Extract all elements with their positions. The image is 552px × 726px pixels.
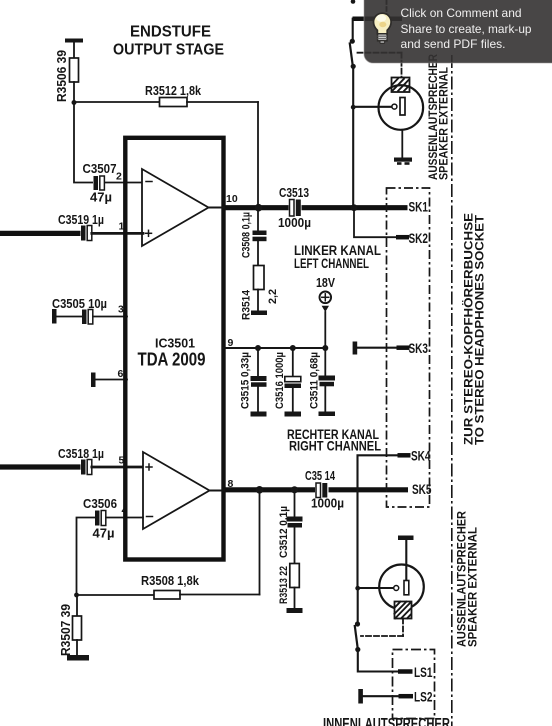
- capacitor C3515 0,33u: [240, 348, 267, 412]
- svg-text:C3511 0,68µ: C3511 0,68µ: [309, 352, 321, 409]
- wire terminal to speaker 2: [405, 540, 407, 581]
- wire R3508 up to output node: [259, 490, 261, 595]
- svg-text:10: 10: [226, 193, 238, 205]
- node junctions on pin 9 rail: [255, 345, 261, 351]
- connector box LS1-LS2: [393, 650, 435, 719]
- svg-text:SPEAKER EXTERNAL: SPEAKER EXTERNAL: [468, 527, 480, 647]
- svg-text:C3508 0,1µ: C3508 0,1µ: [241, 212, 253, 258]
- capacitor C3512 0,1u: [278, 490, 303, 564]
- wire thick to top connector: [353, 16, 403, 21]
- label ZUR STEREO-KOPFHOERERBUCHSE / TO STEREO HEADPHONES SOCKET: [461, 213, 487, 445]
- svg-text:R3506 39: R3506 39: [55, 50, 69, 102]
- svg-text:LS1: LS1: [414, 665, 433, 680]
- svg-text:C3513: C3513: [279, 186, 309, 200]
- svg-text:9: 9: [228, 337, 234, 349]
- node junction speaker 2: [355, 586, 360, 591]
- power terminal bar above R3506: [65, 39, 83, 59]
- capacitor C3516 1000u: [274, 348, 301, 412]
- wire C3505 to pin 3: [93, 316, 127, 318]
- svg-text:SK1: SK1: [409, 200, 429, 215]
- node at top edge: [351, 0, 356, 4]
- svg-text:6: 6: [118, 368, 124, 380]
- capacitor C3505 10u: [52, 297, 107, 324]
- speaker jack 2 hatched plug: [394, 601, 412, 619]
- capacitor C3514 1000u: [305, 469, 344, 511]
- wire C3506 to pin 4: [106, 517, 143, 519]
- terminal bar SK3: [353, 342, 358, 355]
- wire C3519 to pin 1: [92, 232, 143, 235]
- svg-text:OUTPUT STAGE: OUTPUT STAGE: [113, 42, 224, 59]
- ground bar R3513: [287, 608, 303, 613]
- IC U1 box IC3501 TDA2009: [125, 138, 223, 560]
- svg-text:C3515 0,33µ: C3515 0,33µ: [240, 352, 252, 409]
- node junction speaker 1: [351, 105, 356, 110]
- wire to speaker 1: [353, 106, 392, 108]
- connector box SK1-SK5: [387, 188, 430, 507]
- svg-text:C35 14: C35 14: [305, 469, 335, 483]
- svg-text:IC3501: IC3501: [155, 336, 195, 351]
- terminal bar speaker 2 top: [398, 536, 414, 541]
- supply node 18V: [316, 276, 336, 348]
- speaker jack 1 circle: [379, 85, 424, 130]
- capacitor C3511 0,68u: [309, 348, 336, 412]
- svg-text:18V: 18V: [316, 276, 336, 290]
- wire to speaker 2: [358, 587, 394, 589]
- node junction R3506/R3512/C3507: [72, 100, 77, 105]
- node junction to SK2 branch: [351, 204, 358, 211]
- svg-text:SK4: SK4: [411, 449, 431, 464]
- wire LS2: [363, 695, 399, 697]
- svg-text:R3513 22: R3513 22: [278, 566, 290, 604]
- capacitor C3513 1000u: [278, 186, 311, 230]
- svg-text:SK3: SK3: [409, 341, 429, 356]
- svg-text:Click on Comment and: Click on Comment and: [401, 6, 522, 20]
- svg-text:INNENLAUTSPRECHER: INNENLAUTSPRECHER: [323, 716, 450, 726]
- svg-text:C3505 10µ: C3505 10µ: [52, 297, 107, 311]
- node junction output/R3508: [256, 486, 264, 494]
- wire LS1 stub: [398, 669, 413, 674]
- ground bar C3511: [319, 412, 336, 417]
- svg-text:LS2: LS2: [414, 690, 433, 705]
- wire switch to LS1: [358, 651, 398, 672]
- node junction R3507/R3508: [74, 593, 79, 598]
- wire C3518 to pin 5: [92, 466, 143, 469]
- wire left channel output (thick): [225, 205, 408, 210]
- wire right channel output (thick): [225, 487, 408, 492]
- svg-text:1000µ: 1000µ: [278, 216, 311, 230]
- resistor R3513 22: [278, 564, 299, 609]
- svg-text:R3514: R3514: [241, 289, 253, 320]
- ground bar C3515: [251, 412, 267, 417]
- speaker jack 2 slot: [404, 581, 409, 595]
- svg-text:SK5: SK5: [412, 482, 432, 497]
- svg-text:47µ: 47µ: [93, 527, 115, 541]
- wire pin 6: [96, 379, 128, 381]
- label AUSSENLAUTSPRECHER / SPEAKER EXTERNAL bottom: [457, 510, 480, 647]
- tooltip overlay: [364, 0, 552, 63]
- speaker jack 1 hatched plug: [392, 78, 410, 93]
- bulb icon: [374, 13, 392, 43]
- svg-text:SPEAKER EXTERNAL: SPEAKER EXTERNAL: [438, 67, 450, 180]
- ground bar C3516: [285, 412, 302, 417]
- resistor R3508 1,8k feedback lower: [77, 574, 260, 599]
- svg-text:C3507: C3507: [83, 162, 117, 176]
- svg-text:R3512 1,8k: R3512 1,8k: [145, 84, 201, 98]
- svg-text:2,2: 2,2: [267, 289, 279, 304]
- speaker jack 2 circle: [379, 565, 424, 610]
- pin 8 output wire: [210, 489, 226, 491]
- boundary line headphone socket (dash-dot): [451, 55, 453, 726]
- resistor R3507 39: [59, 595, 82, 656]
- top hidden connector dashed edge: [386, 0, 388, 18]
- terminal bar LS2: [358, 689, 363, 704]
- op-amp U1b (lower half TDA2009): [143, 452, 210, 529]
- wire switch to speaker node: [352, 68, 354, 208]
- ground bar R3514: [251, 311, 267, 316]
- switch S2 speaker bottom: [355, 588, 361, 652]
- capacitor C3519 1u: [58, 213, 104, 242]
- resistor R3506 39: [55, 50, 79, 102]
- svg-text:47µ: 47µ: [90, 191, 112, 205]
- terminal bar C3505 left: [52, 309, 57, 324]
- wire LS2 stub: [399, 694, 414, 699]
- wire SK3: [357, 347, 409, 349]
- svg-text:Share to create, mark-up: Share to create, mark-up: [401, 22, 532, 36]
- svg-text:R3508 1,8k: R3508 1,8k: [141, 574, 199, 588]
- op-amp U1a (upper half TDA2009): [142, 169, 209, 246]
- speaker jack 2 contact: [394, 586, 399, 591]
- pin 9 supply rail: [224, 347, 327, 349]
- svg-text:ENDSTUFE: ENDSTUFE: [130, 24, 211, 41]
- svg-text:SK2: SK2: [409, 231, 429, 246]
- wire input right channel (thick): [0, 464, 82, 469]
- dashed actuation link top jack: [358, 53, 402, 77]
- switch S1 speaker top: [350, 39, 356, 69]
- svg-text:3: 3: [118, 304, 124, 316]
- wire C3506 left down to R3507 node: [77, 518, 95, 596]
- svg-text:TDA 2009: TDA 2009: [138, 350, 206, 370]
- node junction output/R3512/C3508: [255, 204, 263, 212]
- svg-text:RIGHT CHANNEL: RIGHT CHANNEL: [289, 439, 381, 454]
- capacitor C3518 1u: [58, 447, 104, 476]
- svg-text:2: 2: [116, 171, 122, 183]
- svg-text:TO STEREO HEADPHONES SOCKET: TO STEREO HEADPHONES SOCKET: [473, 214, 487, 445]
- wire C3507 to pin 2: [105, 182, 143, 184]
- title ENDSTUFE / OUTPUT STAGE: [113, 24, 224, 59]
- wire down from node to C3507: [74, 103, 94, 183]
- label LINKER KANAL / LEFT CHANNEL: [294, 243, 381, 271]
- svg-text:C3506: C3506: [83, 497, 117, 511]
- capacitor C3507 47u: [83, 162, 117, 205]
- resistor R3512 1,8k feedback upper: [74, 84, 258, 107]
- dashed actuation link bottom jack: [361, 619, 403, 637]
- svg-text:LEFT CHANNEL: LEFT CHANNEL: [294, 256, 369, 271]
- label RECHTER KANAL / RIGHT CHANNEL: [287, 427, 381, 454]
- wire terminal to C3505: [57, 316, 83, 318]
- svg-text:C3512 0,1µ: C3512 0,1µ: [278, 506, 290, 558]
- svg-text:and send PDF files.: and send PDF files.: [401, 37, 506, 51]
- capacitor C3508 0,1u: [241, 210, 267, 266]
- speaker jack 1 slot: [400, 98, 405, 116]
- resistor R3514 2,2: [241, 266, 280, 321]
- wire down from top corner: [352, 19, 354, 39]
- svg-text:1000µ: 1000µ: [311, 497, 344, 511]
- label AUSSENLAUTSPRECHER / SPEAKER EXTERNAL top: [428, 53, 451, 180]
- svg-text:R3507 39: R3507 39: [59, 604, 73, 656]
- wire input left channel (thick): [0, 231, 82, 236]
- speaker jack 1 contact: [392, 104, 397, 109]
- terminal bar pin 6: [91, 373, 96, 388]
- wire SK2 branch: [354, 208, 409, 238]
- wire SK4 stub: [398, 453, 411, 458]
- ground speaker 1: [394, 130, 412, 165]
- capacitor C3506 47u: [83, 497, 117, 541]
- node junction output/C3512: [291, 486, 298, 493]
- wire R3512 down to output node: [257, 102, 259, 204]
- ground bar R3507: [67, 655, 89, 661]
- svg-text:C3519 1µ: C3519 1µ: [58, 213, 104, 227]
- wire SK4 down to speaker 2: [358, 455, 398, 588]
- svg-text:C3516 1000µ: C3516 1000µ: [274, 352, 286, 409]
- pin 10 output wire: [209, 206, 226, 208]
- svg-text:C3518 1µ: C3518 1µ: [58, 447, 104, 461]
